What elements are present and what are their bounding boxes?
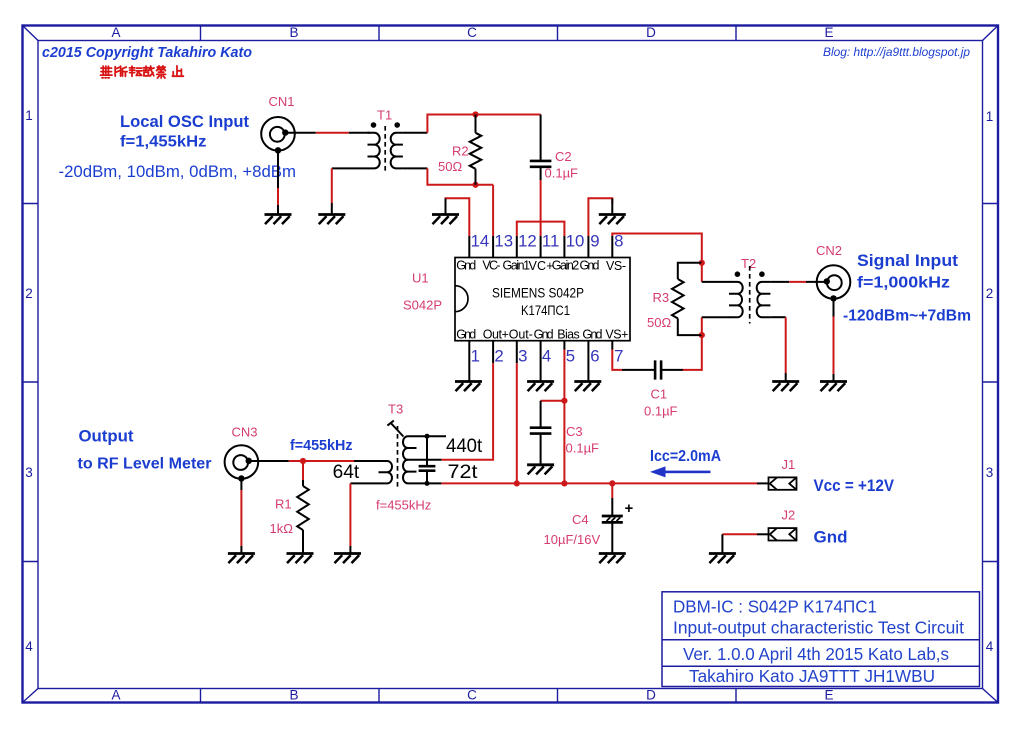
svg-text:R1: R1 — [275, 497, 292, 512]
svg-text:12: 12 — [518, 232, 537, 251]
node pin5 C3 junction — [561, 398, 567, 404]
wire T1 bottom to lower rail (red) — [427, 168, 493, 184]
svg-text:Input-output characteristic Te: Input-output characteristic Test Circuit — [673, 618, 964, 638]
wire T2 left bottom lead — [702, 316, 730, 318]
wire C3 staple (red) — [541, 400, 565, 402]
pin1 stub to ground — [468, 341, 470, 381]
svg-text:4: 4 — [986, 639, 994, 654]
svg-text:2: 2 — [494, 347, 503, 366]
svg-text:3: 3 — [986, 465, 994, 480]
svg-text:f=455kHz: f=455kHz — [290, 438, 353, 454]
svg-text:72t: 72t — [448, 462, 479, 483]
svg-text:C4: C4 — [572, 512, 589, 527]
svg-text:2: 2 — [986, 286, 994, 301]
red kanji 無断転載禁止 (hand-drawn strokes) — [101, 66, 184, 78]
border row ticks left — [23, 204, 39, 562]
wire T2 right top lead — [770, 281, 789, 283]
wire pin5 bias down to rail (red) — [563, 350, 565, 484]
svg-text:C: C — [467, 25, 477, 40]
svg-text:E: E — [824, 25, 833, 40]
svg-text:U1: U1 — [412, 271, 429, 286]
svg-text:1: 1 — [25, 108, 33, 123]
wire T3 72t bottom lead — [417, 482, 442, 484]
connector CN1 (coax jack) — [261, 117, 295, 151]
capacitor T3 internal tuning cap — [419, 436, 436, 483]
svg-text:Gnd: Gnd — [580, 258, 600, 272]
pin3 stub — [516, 341, 518, 364]
wire CN2 shell red — [833, 317, 835, 375]
resistor R3 — [672, 279, 684, 318]
ground J2 — [709, 554, 736, 564]
wire J1 lead — [757, 482, 769, 484]
svg-text:64t: 64t — [333, 462, 360, 483]
transformer T3 left winding 64t — [379, 461, 393, 483]
border column ticks bottom — [201, 689, 737, 703]
svg-text:4: 4 — [542, 347, 551, 366]
wire pin3 to rail (red) — [516, 363, 518, 483]
wire R3 bottom corner — [678, 318, 702, 335]
capacitor C1 leads — [622, 360, 683, 379]
ground T3 64t — [334, 554, 361, 564]
op-amp U1 IC box — [455, 258, 630, 341]
wire pin7 to C1 (red) — [612, 350, 622, 370]
svg-text:VC+: VC+ — [529, 259, 554, 273]
svg-text:C1: C1 — [651, 387, 668, 402]
node T3 cap bottom dot — [425, 481, 430, 486]
svg-text:VS+: VS+ — [605, 328, 628, 342]
wire T1 top to rail (red) — [427, 115, 540, 133]
connector J2 — [769, 528, 797, 540]
wire T2 left top lead — [702, 281, 730, 283]
svg-text:CN2: CN2 — [816, 243, 842, 258]
transformer T3 tuning slug — [387, 421, 403, 437]
ground C4 — [599, 554, 626, 564]
wire CN3 shell down — [240, 479, 242, 491]
node rail C4 — [609, 480, 615, 486]
ground C3 — [527, 465, 554, 475]
svg-text:A: A — [111, 25, 120, 40]
node CN1 pin dot — [282, 129, 288, 135]
svg-text:VS-: VS- — [606, 259, 626, 273]
svg-text:3: 3 — [518, 347, 527, 366]
svg-text:5: 5 — [566, 347, 575, 366]
svg-text:Takahiro Kato JA9TTT JH1WBU: Takahiro Kato JA9TTT JH1WBU — [689, 666, 935, 686]
svg-text:Ver. 1.0.0 April 4th 2015 Kat: Ver. 1.0.0 April 4th 2015 Kato Lab,s — [683, 644, 949, 664]
svg-text:C2: C2 — [555, 149, 572, 164]
grid numbers left — [25, 108, 33, 654]
svg-text:Gain1: Gain1 — [503, 258, 531, 272]
wire pin8 to R3/T2 node (red) — [612, 234, 702, 263]
node R3 bottom junction — [699, 332, 705, 338]
node CN2 shell dot — [830, 295, 836, 301]
U1 notch — [455, 286, 468, 312]
wire T3 left bottom lead — [350, 482, 378, 484]
svg-text:Vcc = +12V: Vcc = +12V — [814, 477, 895, 495]
wire CN2 pin lead black — [806, 281, 827, 283]
wire J2 red — [722, 533, 757, 535]
svg-text:Gain2: Gain2 — [552, 258, 580, 272]
svg-text:to RF Level Meter: to RF Level Meter — [78, 456, 212, 473]
svg-text:T2: T2 — [741, 256, 756, 271]
node CN3 pin dot — [246, 458, 252, 464]
wire T2 right bottom red down — [785, 317, 787, 373]
svg-text:Out-: Out- — [509, 328, 533, 342]
wire C4 red from rail — [611, 483, 613, 498]
ground pin14 — [432, 215, 459, 225]
svg-text:c2015 Copyright Takahiro Kato: c2015 Copyright Takahiro Kato — [42, 45, 252, 61]
node CN3 shell dot — [238, 475, 244, 481]
svg-text:7: 7 — [614, 347, 623, 366]
title block box — [662, 592, 980, 687]
svg-text:Bias: Bias — [557, 328, 580, 342]
node R1 junction — [300, 458, 306, 464]
wire C1 right to R3 node (red) — [683, 335, 702, 370]
wire Vcc rail (red) — [441, 482, 757, 484]
wire pin13 red up to rail — [492, 185, 494, 236]
connector CN2 (coax jack) — [817, 265, 851, 299]
svg-text:-120dBm~+7dBm: -120dBm~+7dBm — [843, 308, 971, 325]
node rail pin5 — [561, 480, 567, 486]
svg-text:D: D — [646, 688, 656, 703]
wire T1 right top lead — [403, 132, 428, 134]
U1 bottom pin numbers — [471, 347, 624, 366]
svg-text:T1: T1 — [377, 108, 392, 123]
wire R3 top corner — [678, 263, 702, 279]
wire CN1 shell to ground — [277, 205, 279, 214]
transformer T1 dots — [371, 122, 377, 128]
ground T2 — [772, 382, 799, 392]
capacitor C2 — [530, 115, 552, 181]
svg-text:Output: Output — [79, 428, 135, 446]
svg-text:13: 13 — [494, 232, 513, 251]
wire CN3 shell red — [240, 490, 242, 546]
transformer T3 right winding 440t/72t — [403, 436, 417, 483]
label C4 plus sign — [625, 505, 632, 513]
svg-text:Icc=2.0mA: Icc=2.0mA — [650, 448, 721, 465]
TITLE BLOCK — [662, 592, 980, 687]
svg-text:C: C — [467, 688, 477, 703]
svg-text:Signal Input: Signal Input — [857, 252, 959, 270]
svg-text:Gnd: Gnd — [814, 529, 848, 547]
svg-text:14: 14 — [471, 232, 490, 251]
wire pin2 to T3 72t tap (red) — [441, 363, 493, 460]
svg-text:B: B — [289, 25, 298, 40]
resistor R2 — [470, 115, 482, 185]
svg-text:E: E — [824, 688, 833, 703]
capacitor C3 — [530, 401, 552, 465]
connector CN3 (coax jack) — [225, 445, 259, 479]
svg-text:Gnd: Gnd — [456, 328, 476, 342]
svg-text:C3: C3 — [566, 424, 583, 439]
svg-text:CN1: CN1 — [269, 94, 295, 109]
svg-text:DBM-IC : S042P K174ПС1: DBM-IC : S042P K174ПС1 — [673, 597, 877, 617]
wire J2 lead — [757, 533, 769, 535]
wire CN3 to T3 (black lead) — [249, 460, 289, 462]
ground pin1 — [455, 382, 482, 392]
transformer T1 right winding — [391, 133, 403, 169]
wire CN1 shell red segment — [277, 188, 279, 205]
node T3 cap top dot — [425, 434, 430, 439]
wire R3 node to T2 top (red) — [701, 263, 703, 282]
svg-text:f=1,455kHz: f=1,455kHz — [120, 134, 207, 151]
node rail pin3 — [514, 480, 520, 486]
wire T2 bottom to R3 node (red) — [701, 317, 703, 335]
svg-text:SIEMENS S042P: SIEMENS S042P — [492, 286, 584, 301]
wire pin14 gnd loop (red) — [446, 198, 470, 236]
svg-text:Blog: http://ja9ttt.blogspot.j: Blog: http://ja9ttt.blogspot.jp — [823, 47, 971, 59]
wire T3 left ground stub — [349, 546, 351, 553]
grid numbers right — [986, 109, 994, 654]
svg-text:S042P: S042P — [403, 298, 442, 313]
ground T1 left — [318, 215, 345, 225]
svg-text:50Ω: 50Ω — [438, 159, 462, 174]
svg-text:K174ПС1: K174ПС1 — [521, 303, 570, 318]
svg-text:J1: J1 — [782, 457, 796, 472]
svg-text:3: 3 — [25, 465, 33, 480]
svg-text:10: 10 — [566, 232, 585, 251]
svg-text:1kΩ: 1kΩ — [270, 521, 294, 536]
wire CN3-T3 red — [289, 460, 354, 462]
node R3 top junction — [699, 260, 705, 266]
transformer T2 dots — [735, 271, 741, 277]
ground pin4 — [527, 382, 554, 392]
transformer T1 core — [384, 126, 386, 174]
wire CN1 to T1 (black lead) — [285, 132, 370, 134]
svg-text:0.1µF: 0.1µF — [566, 441, 600, 456]
wire J2 ground stub — [721, 534, 723, 553]
wire T1 right bottom lead — [403, 167, 428, 169]
svg-text:6: 6 — [590, 347, 599, 366]
wire C2 bottom red to pin 11 — [540, 180, 542, 236]
node CN2 pin dot — [824, 278, 830, 284]
pin6 stub to ground — [587, 341, 589, 381]
transformer T2 core — [749, 266, 751, 324]
svg-text:D: D — [646, 25, 656, 40]
wire CN2 ground stub — [833, 374, 835, 381]
node CN1 shell dot — [275, 147, 281, 153]
svg-text:f=1,000kHz: f=1,000kHz — [857, 275, 950, 292]
transformer T3 core — [397, 426, 399, 489]
U1 top pin names — [456, 258, 626, 273]
svg-text:Gnd: Gnd — [582, 328, 602, 342]
U1 top pin numbers — [471, 232, 624, 251]
pin5 stub — [563, 341, 565, 350]
svg-text:1: 1 — [471, 347, 480, 366]
connector J1 — [769, 477, 797, 489]
wire T2 ground stub — [785, 373, 787, 381]
ground pin6 — [574, 382, 601, 392]
wire T2 right top red to CN2 — [789, 281, 806, 283]
U1 top pin stubs — [469, 236, 612, 258]
svg-text:10µF/16V: 10µF/16V — [544, 532, 601, 547]
node R2 top junction — [472, 111, 478, 117]
svg-text:-20dBm, 10dBm, 0dBm, +8dBm: -20dBm, 10dBm, 0dBm, +8dBm — [59, 162, 297, 181]
wire pin9 gnd stub — [611, 199, 613, 215]
wire T2 right bottom lead — [770, 316, 785, 318]
svg-text:Gnd: Gnd — [534, 328, 554, 342]
capacitor C4 (polarized) — [602, 498, 623, 553]
Icc arrow — [650, 466, 711, 477]
transformer T2 right winding — [757, 282, 771, 317]
svg-text:J2: J2 — [782, 508, 796, 523]
grid letters bottom — [111, 688, 833, 703]
pin4 stub to ground — [540, 341, 542, 381]
svg-text:R2: R2 — [452, 144, 469, 159]
title block row lines — [662, 640, 980, 667]
svg-text:R3: R3 — [653, 290, 670, 305]
svg-text:f=455kHz: f=455kHz — [376, 498, 431, 513]
wire T3 left bottom red down — [349, 483, 351, 546]
wire T1 left bottom red down — [331, 168, 333, 203]
ground R1 — [287, 554, 314, 564]
svg-text:Out+: Out+ — [483, 328, 509, 342]
ground CN2 — [820, 382, 847, 392]
node R2 bottom junction — [472, 182, 478, 188]
wire CN1 shell down — [277, 150, 279, 188]
ground CN1 — [265, 215, 292, 225]
svg-text:2: 2 — [25, 286, 33, 301]
wire pin9 gnd loop (red) — [588, 198, 612, 236]
svg-text:Gnd: Gnd — [456, 258, 476, 272]
svg-text:0.1µF: 0.1µF — [644, 404, 678, 419]
svg-text:Local OSC Input: Local OSC Input — [120, 113, 249, 131]
ground pin9 — [599, 215, 626, 225]
svg-text:CN3: CN3 — [232, 425, 258, 440]
svg-text:11: 11 — [542, 232, 559, 251]
wire R1 red down — [302, 461, 304, 480]
svg-text:8: 8 — [614, 232, 623, 251]
pin7 stub — [611, 341, 613, 350]
U1 bottom pin names — [456, 328, 628, 342]
wire T3 tap lead (black) — [417, 459, 442, 461]
transformer T2 left winding — [729, 282, 743, 317]
wire pins 12-10 staple (red) — [517, 222, 565, 236]
svg-text:VC-: VC- — [482, 258, 500, 272]
svg-text:T3: T3 — [388, 402, 403, 417]
wire CN3 ground stub — [240, 546, 242, 553]
svg-text:440t: 440t — [446, 436, 483, 457]
svg-text:50Ω: 50Ω — [647, 315, 671, 330]
svg-text:A: A — [111, 688, 120, 703]
wire T3 440t top stub — [417, 435, 447, 437]
svg-text:B: B — [289, 688, 298, 703]
grid letters top — [111, 25, 833, 40]
wire T3 left top lead — [354, 460, 379, 462]
pin2 stub — [492, 341, 494, 364]
svg-text:9: 9 — [590, 232, 599, 251]
resistor R1 — [297, 480, 309, 553]
border row ticks right — [983, 204, 999, 562]
svg-text:4: 4 — [25, 639, 33, 654]
transformer T1 left winding — [368, 133, 380, 169]
ground CN3 — [228, 554, 255, 564]
wire T1 left bottom lead — [332, 167, 368, 169]
wire pin14 gnd stub — [445, 199, 447, 215]
svg-text:1: 1 — [986, 109, 994, 124]
wire T1 left bottom to ground — [331, 203, 333, 214]
wire CN2 shell down — [833, 298, 835, 316]
border column ticks top — [201, 26, 737, 41]
wire CN1-T1 red segment — [316, 132, 349, 134]
